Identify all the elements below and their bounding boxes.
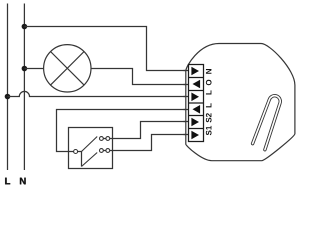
terminal divider 3 <box>189 102 204 104</box>
wire N line to terminal N (T1) <box>24 27 188 71</box>
wire stub into terminal L upper <box>184 96 190 98</box>
lamp X stroke 1 <box>51 52 85 86</box>
terminal label S1 <box>206 126 212 135</box>
switch common contact <box>74 150 78 154</box>
terminal T1 arrow (N) <box>191 67 199 76</box>
terminal divider 1 <box>189 77 204 79</box>
wire stub into terminal N <box>184 70 190 72</box>
label N <box>20 178 26 185</box>
terminal label L (upper) <box>206 90 212 94</box>
switch blade 2 <box>82 153 98 167</box>
junction node on N line (top) <box>22 24 28 30</box>
terminal label S2 <box>206 113 212 122</box>
terminal T3 arrow (L) <box>191 93 199 102</box>
terminal T6 arrow (S1) <box>191 131 199 140</box>
terminal T2 arrow (O) <box>193 80 201 89</box>
wire stub into terminal L lower <box>184 109 190 111</box>
link contacts 2 <box>103 150 106 152</box>
wire stub into terminal O <box>184 84 190 86</box>
lamp E1 (circle) <box>44 45 91 92</box>
switch contact 1a <box>100 137 104 141</box>
lamp X stroke 2 <box>51 52 85 86</box>
supply line N (second vertical) <box>23 4 25 171</box>
switch common link <box>78 151 82 153</box>
terminal T4 arrow (L) <box>193 105 201 114</box>
junction node on N line (lamp feed) <box>22 66 28 72</box>
module U1 outline (flush-mount relay body) <box>186 44 295 161</box>
link contacts 1 <box>103 138 106 140</box>
supply line L (left vertical) <box>7 4 9 171</box>
terminal divider 5 <box>189 128 204 130</box>
terminal divider 4 <box>189 115 204 117</box>
switch blade 1 <box>82 137 98 152</box>
switch contact 2b <box>106 149 110 153</box>
terminal divider 2 <box>189 90 204 92</box>
wire clip (hairpin) outer <box>253 96 281 150</box>
terminal label N <box>206 69 212 74</box>
wire clip (hairpin) inner white <box>253 96 281 150</box>
wire terminal L (T4) to switch common <box>57 110 189 152</box>
switch contact 2a <box>100 149 104 153</box>
switch box S <box>69 128 113 169</box>
switch contact 1b <box>106 137 110 141</box>
wire N line to lamp <box>24 68 43 70</box>
label L <box>5 178 10 185</box>
wire switch output 2 to terminal S1 (T6) <box>110 135 189 151</box>
wire L line to terminal L (T3) with hop over N line <box>8 91 189 96</box>
terminal label O <box>206 80 212 86</box>
switch internal drop wire <box>81 152 83 167</box>
terminal label L (lower) <box>206 103 212 107</box>
junction node on L line <box>5 94 11 100</box>
wire stub into terminal S2 <box>184 121 190 123</box>
wire switch output 1 to terminal S2 (T5) <box>110 122 189 139</box>
terminal block frame <box>189 65 204 142</box>
wire stub into terminal S1 <box>184 134 190 136</box>
wire lamp to terminal O (T2) <box>91 69 189 85</box>
terminal T5 arrow (S2) <box>191 118 199 127</box>
